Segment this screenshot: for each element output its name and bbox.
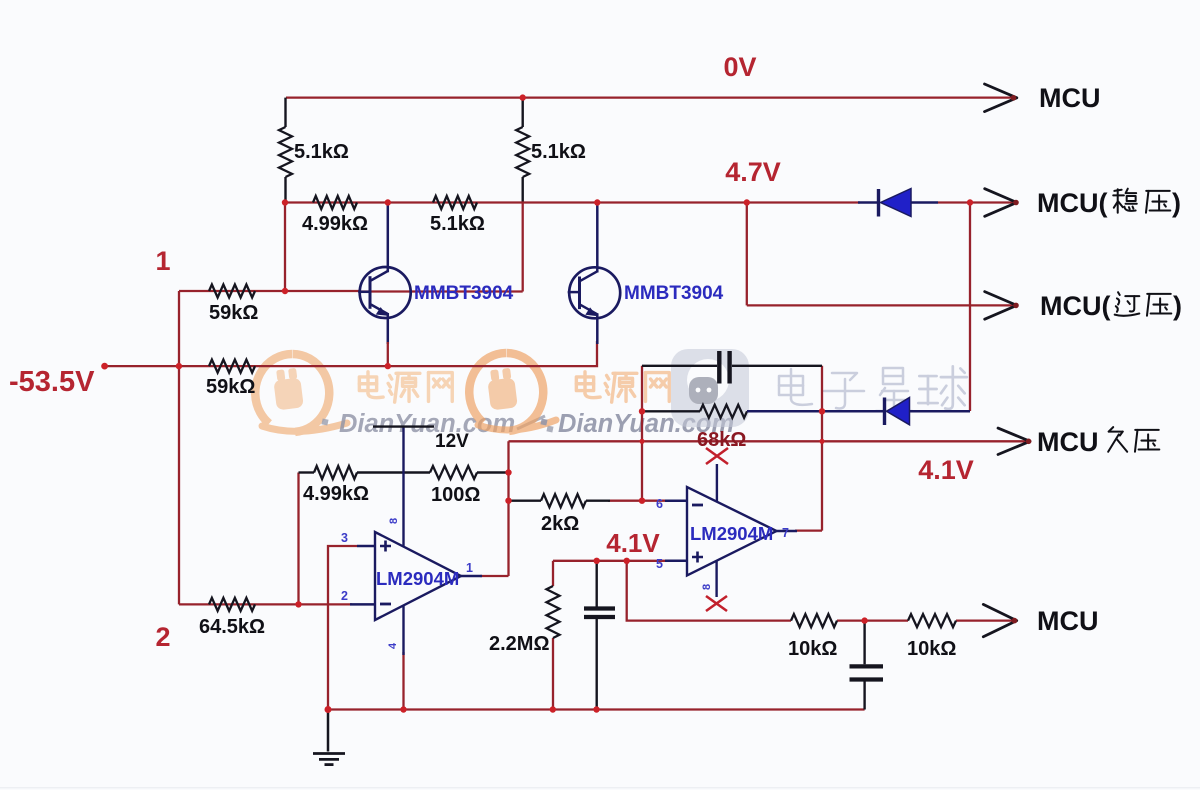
node arrow tip mcu bottom — [1012, 618, 1018, 624]
wire U2 bottom power pin — [715, 561, 717, 597]
svg-text:4.1V: 4.1V — [918, 455, 974, 485]
node U2 pin6 — [639, 498, 645, 504]
svg-text:4.1V: 4.1V — [606, 528, 660, 558]
wire 2k to U2 pin6 — [608, 500, 665, 502]
wire diode D1 right to junction — [938, 201, 1013, 203]
port arrow MCU under-voltage — [998, 428, 1030, 454]
svg-text:MMBT3904: MMBT3904 — [624, 283, 724, 304]
svg-text:100Ω: 100Ω — [431, 484, 480, 506]
wire row 472 leads — [299, 471, 315, 473]
wire U1 pin8 supply from 12V — [402, 427, 404, 547]
wire U1 pin4 below — [402, 606, 404, 656]
node U2 pin5 — [624, 558, 630, 564]
node D1 out — [967, 199, 973, 205]
wire U1 pin4 to ground rail — [402, 652, 404, 710]
svg-text:12V: 12V — [435, 431, 469, 452]
resistor R14 10k no2 — [908, 614, 956, 627]
node feedback left cap/68k — [639, 408, 645, 414]
capacitor C1 feedback — [642, 365, 717, 367]
svg-text:MCU(: MCU( — [1037, 188, 1107, 218]
wire U1 output lead — [480, 575, 509, 577]
svg-text:-53.5V: -53.5V — [9, 366, 95, 398]
svg-text:8: 8 — [388, 518, 400, 524]
wire 0V top rail — [286, 96, 1013, 98]
wire between 10k resistors — [837, 619, 908, 621]
node B1 top — [282, 199, 288, 205]
svg-text:7: 7 — [782, 526, 789, 540]
node Q1 base — [282, 288, 288, 294]
node Q1 collector — [385, 199, 391, 205]
wire U2 feedback right vertical — [821, 366, 823, 531]
svg-text:68kΩ: 68kΩ — [697, 429, 746, 451]
wire MCU under-voltage rail — [509, 440, 1029, 442]
no-ERC mark top of U2 — [706, 448, 728, 464]
svg-text:10kΩ: 10kΩ — [907, 638, 956, 660]
wire U1 output vertical node — [507, 441, 509, 576]
wire ground rail — [328, 708, 865, 710]
wire D2 right corner vertical — [969, 203, 971, 412]
port arrow MCU bottom — [983, 604, 1016, 636]
port arrow MCU stable — [985, 189, 1017, 217]
port arrow MCU (0V) — [985, 84, 1017, 112]
svg-text:5: 5 — [656, 557, 663, 571]
svg-text:6: 6 — [656, 497, 663, 511]
svg-text:4.99kΩ: 4.99kΩ — [302, 213, 368, 235]
resistor R9 100 ohm — [430, 466, 477, 479]
resistor R3 4.99k — [313, 196, 357, 209]
12V power bar — [373, 425, 434, 427]
svg-text:DianYuan.com: DianYuan.com — [339, 410, 515, 438]
wire R10 leads — [509, 500, 542, 502]
node U1 out / 100R — [505, 469, 511, 475]
watermark text 电源网 2 — [576, 372, 600, 398]
watermark logo DianYuan 2 — [469, 353, 556, 431]
node arrow tip under — [1026, 439, 1032, 445]
node output crossing under-voltage — [819, 439, 824, 444]
node 10k middle — [861, 617, 867, 623]
node -53.5V terminal — [101, 363, 108, 370]
wire left bus vertical — [178, 291, 180, 604]
wire top-left corner down to R1 — [284, 98, 286, 127]
node left bus / -53.5V — [176, 363, 182, 369]
svg-text:MMBT3904: MMBT3904 — [414, 283, 514, 304]
watermark text DianYuan.com 1 — [321, 410, 553, 438]
wire U2 output lead — [795, 529, 822, 531]
port arrow MCU over-voltage — [985, 292, 1017, 320]
node R8 feedback bottom — [295, 601, 301, 607]
resistor R2 5.1k vertical — [516, 127, 529, 177]
watermark text 电源网 1 — [359, 372, 383, 398]
svg-text:4.99kΩ: 4.99kΩ — [303, 483, 369, 505]
wire U1 pin3 to ground bus — [328, 546, 357, 710]
svg-text:5.1kΩ: 5.1kΩ — [531, 141, 586, 163]
svg-text:10kΩ: 10kΩ — [788, 638, 837, 660]
op-amp U2 LM2904M — [665, 499, 687, 502]
resistor R12 68k feedback — [700, 405, 747, 418]
resistor R4 5.1k — [433, 196, 477, 209]
wire R12 left lead — [642, 410, 700, 412]
transistor Q2 MMBT3904 — [596, 203, 599, 273]
wire feedback node vertical — [297, 473, 299, 605]
svg-text:2kΩ: 2kΩ — [541, 513, 579, 535]
svg-text:MCU: MCU — [1037, 427, 1099, 457]
wire MCU over-voltage rail — [747, 304, 1013, 306]
ground symbol — [327, 710, 330, 752]
svg-text:): ) — [1172, 188, 1181, 218]
wire -53.5V rail — [105, 341, 597, 366]
wire 4.7V rail — [285, 201, 860, 203]
watermark logo DianYuan 1 — [255, 354, 347, 432]
wire row 1 to Q1 base — [179, 290, 359, 292]
svg-text:5.1kΩ: 5.1kΩ — [294, 141, 349, 163]
diode D1 — [858, 201, 879, 204]
svg-text:MCU(: MCU( — [1040, 291, 1110, 321]
wire 4.1V node row — [553, 560, 665, 562]
resistor R5 59k row1 — [209, 285, 255, 298]
resistor R11 2.2M vertical — [547, 586, 560, 638]
resistor R8 4.99k feedback — [314, 466, 357, 479]
watermark text 电子星球 — [779, 369, 812, 405]
wire Q2 base branch horizontal — [359, 290, 523, 292]
capacitor C2 — [596, 561, 598, 607]
svg-text:2: 2 — [155, 622, 170, 652]
resistor R6 59k supply row — [209, 360, 255, 373]
node C2 ground — [593, 706, 599, 712]
node 4.7V branch — [744, 199, 750, 205]
wire U2 feedback left vertical — [641, 366, 643, 501]
wire row 2 to U1 inverting input — [179, 603, 352, 605]
no-ERC mark bottom of U2 — [706, 596, 727, 611]
node U1 pin4 ground — [400, 706, 406, 712]
svg-text:LM2904M: LM2904M — [690, 523, 773, 544]
svg-text:2.2MΩ: 2.2MΩ — [489, 633, 550, 655]
svg-text:59kΩ: 59kΩ — [206, 376, 255, 398]
wire pin5 node down and right — [627, 561, 791, 621]
svg-text:1: 1 — [155, 246, 170, 276]
wire 10k no2 to MCU arrow — [956, 619, 1013, 621]
node Q1 emitter — [385, 363, 391, 369]
svg-text:64.5kΩ: 64.5kΩ — [199, 616, 265, 638]
resistor R13 10k no1 — [791, 614, 837, 627]
svg-text:1: 1 — [466, 561, 473, 575]
node arrow tip 0V — [1011, 95, 1017, 101]
wire node B1 vertical — [284, 203, 286, 292]
wire 2.2M top lead — [552, 561, 554, 586]
svg-text:0V: 0V — [723, 52, 756, 82]
svg-text:5.1kΩ: 5.1kΩ — [430, 213, 485, 235]
node Q2 collector — [594, 199, 600, 205]
capacitor C3 — [863, 621, 865, 665]
node 0V / R2 — [520, 94, 526, 100]
wire R2 top lead — [522, 98, 524, 127]
svg-text:MCU: MCU — [1037, 606, 1099, 636]
svg-text:8: 8 — [701, 584, 713, 590]
op-amp U1 LM2904M — [357, 545, 375, 548]
wire 4.7V branch vertical — [746, 203, 748, 306]
svg-text:2: 2 — [341, 589, 348, 603]
node feedback right 68k — [819, 408, 825, 414]
wire U2 top power pin — [716, 464, 718, 502]
node 2.2M ground — [550, 706, 556, 712]
watermark logo square (gray) — [671, 349, 749, 427]
svg-text:4: 4 — [387, 642, 399, 649]
wire 2.2M bottom lead — [552, 638, 554, 710]
svg-text:4.7V: 4.7V — [725, 157, 781, 187]
wire R2 bottom lead — [522, 177, 524, 203]
resistor R1 5.1k vertical — [279, 127, 292, 177]
node arrow tip over — [1013, 303, 1019, 309]
node arrow tip stable — [1013, 200, 1019, 206]
node ground bus left — [325, 706, 332, 713]
svg-text:MCU: MCU — [1039, 83, 1101, 113]
watermark text DianYuan.com 2 — [540, 410, 734, 438]
node U1 out / 2k — [505, 498, 511, 504]
diode D2 — [747, 410, 885, 413]
node feedback crossing under-voltage — [639, 439, 644, 444]
transistor Q1 MMBT3904 — [387, 203, 390, 273]
svg-text:59kΩ: 59kΩ — [209, 302, 258, 324]
wire Q2 base branch vertical — [522, 203, 524, 292]
resistor R10 2k — [541, 494, 586, 507]
svg-text:LM2904M: LM2904M — [376, 568, 459, 589]
wire R1 bottom lead — [284, 177, 286, 203]
svg-text:3: 3 — [341, 531, 348, 545]
resistor R7 64.5k — [209, 598, 255, 611]
svg-text:): ) — [1173, 291, 1182, 321]
node C2 top — [594, 558, 600, 564]
